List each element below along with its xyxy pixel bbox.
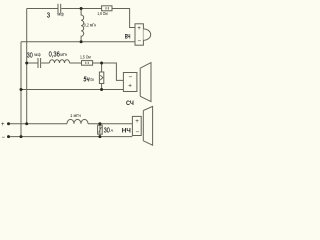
wire tweeter return: [21, 41, 135, 43]
inductor L3 1 мГн: [67, 119, 88, 123]
svg-text:+: +: [128, 83, 132, 90]
speaker BA2 cone: [140, 63, 151, 102]
svg-text:мГн: мГн: [60, 52, 67, 57]
svg-text:−: −: [137, 38, 141, 45]
junction R3 bottom: [100, 88, 103, 91]
wire R2 to node M: [93, 62, 102, 64]
svg-text:3: 3: [47, 10, 50, 19]
junction node M: [100, 62, 103, 65]
capacitor C1 3 мкф: [58, 4, 61, 14]
resistor R3 box 54 Ом: [99, 72, 103, 84]
junction riser net2 end: [25, 122, 28, 125]
svg-text:НЧ: НЧ: [122, 129, 131, 135]
resistor R3 leads: [101, 63, 103, 90]
svg-text:мкф: мкф: [34, 52, 41, 57]
wire top branch to C1: [27, 8, 58, 10]
svg-text:−: −: [136, 129, 140, 136]
wire mid branch from node A: [27, 62, 38, 64]
wire riser net2: [26, 9, 28, 124]
junction F1 bottom: [98, 135, 101, 138]
wire L3 to woofer plus: [88, 123, 132, 125]
wire plus rail bottom: [9, 123, 68, 125]
svg-text:1,8 Ом: 1,8 Ом: [97, 11, 108, 16]
wire C1 to node T: [61, 8, 101, 10]
wire C2 to L2: [41, 62, 49, 64]
speaker BA3 cone: [143, 106, 152, 145]
wire R1 to tweeter plus: [112, 9, 135, 28]
junction minus terminal: [7, 135, 10, 138]
junction lower mid rail start: [20, 88, 23, 91]
wire left riser net1: [20, 42, 22, 137]
svg-text:СЧ: СЧ: [126, 100, 134, 107]
junction F1 top: [98, 122, 101, 125]
resistor R2 1,5 Ом: [82, 61, 93, 66]
speaker BA1 dome: [143, 29, 150, 40]
svg-text:1,5 Ом: 1,5 Ом: [80, 55, 91, 60]
svg-text:30: 30: [27, 51, 33, 60]
svg-text:ВЧ: ВЧ: [125, 35, 131, 41]
speaker BA3 НЧ box: [132, 116, 141, 135]
wire L2 to R2: [70, 62, 82, 64]
svg-text:Ом: Ом: [90, 77, 94, 82]
wire lower mid rail: [21, 89, 123, 91]
fuse F1 box: [98, 125, 103, 134]
speaker BA1 ВЧ box: [135, 24, 143, 45]
fuse F1 leads: [99, 124, 101, 137]
svg-text:А: А: [111, 128, 114, 133]
speaker BA2 СЧ box: [123, 73, 136, 92]
resistor R1 1,8 Ом: [102, 6, 112, 11]
svg-text:0,2 мГн: 0,2 мГн: [84, 23, 97, 28]
svg-text:мкф: мкф: [57, 12, 64, 17]
junction node A mid: [25, 62, 28, 65]
svg-text:+: +: [135, 118, 139, 125]
capacitor C2 30 мкф: [38, 58, 41, 68]
inductor L1 0,2 мГн: [81, 9, 84, 42]
svg-text:30: 30: [104, 128, 110, 135]
svg-text:−: −: [129, 74, 133, 81]
svg-text:0,36: 0,36: [49, 52, 60, 59]
junction node T top: [80, 7, 83, 10]
wire minus rail bottom: [9, 136, 133, 138]
junction L1 bottom: [80, 40, 83, 43]
junction plus terminal: [7, 122, 10, 125]
svg-text:−: −: [2, 135, 6, 141]
inductor L2 0,36 мГн: [50, 60, 70, 63]
wire node M to midrange minus: [102, 63, 124, 80]
junction riser net1 end: [20, 135, 23, 138]
svg-text:+: +: [137, 25, 141, 32]
svg-text:+: +: [1, 122, 5, 128]
svg-text:1 мГн: 1 мГн: [70, 113, 81, 118]
